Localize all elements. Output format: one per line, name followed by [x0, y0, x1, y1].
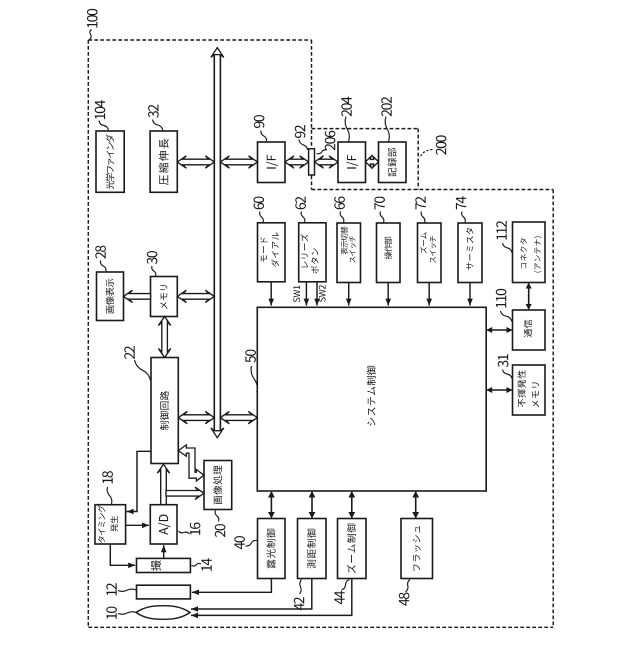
exposure control box 40 [258, 519, 286, 579]
arrow AD to image processing [166, 487, 204, 499]
arrow zoom switch to system control [428, 283, 430, 306]
arrow control-bus [178, 411, 214, 423]
wire SW1 arrow [305, 282, 307, 306]
release button box 62 [299, 223, 326, 282]
image processing box 20 [204, 461, 232, 510]
wire exposure control to shutter [192, 579, 271, 593]
label 202 [381, 97, 392, 116]
label 90 [254, 115, 265, 128]
arrow system-nvmemory [487, 389, 511, 391]
arrow timing to AD [126, 524, 149, 526]
arrow system-zoomctl [351, 492, 353, 518]
operation unit box 70 [377, 223, 401, 283]
lens 10 [136, 606, 190, 620]
bus arrow compress-bus [177, 156, 214, 168]
label 110 [496, 289, 507, 308]
label 104 [95, 100, 106, 119]
flash box 48 [401, 519, 433, 579]
arrow system-exposure [270, 492, 272, 518]
label 31 [498, 354, 509, 367]
double arrow IF204-recorder [366, 156, 379, 167]
arrow display switch to system control [348, 283, 350, 306]
label 50 [245, 350, 256, 363]
connector 206 arrow [315, 156, 339, 168]
label 48 [399, 593, 410, 606]
I/F box 90 [258, 142, 286, 183]
nonvolatile memory box 31 [513, 365, 546, 415]
arrow operation unit to system control [387, 283, 389, 306]
dashed boundary of recording unit 200 [312, 128, 419, 130]
memory box 30 [151, 277, 178, 317]
label 206 [325, 131, 336, 150]
control circuit box 22 [151, 358, 178, 464]
label 112 [496, 221, 506, 240]
arrow system-ranging [311, 492, 313, 518]
recording section box 202 [379, 142, 407, 183]
mode dial box 60 [258, 223, 286, 282]
label 62 [295, 197, 306, 210]
arrow connector-comm [528, 284, 530, 310]
arrow image sensor to AD [163, 545, 165, 558]
arrow system-comm [487, 329, 511, 331]
arrow mode dial to system control [270, 282, 272, 306]
elbow arrow control circuit - image processing [178, 445, 204, 481]
label 22 [124, 346, 134, 359]
I/F box 204 [338, 142, 366, 183]
dashed boundary of camera unit 100 [88, 39, 311, 41]
arrow system-flash [415, 492, 417, 518]
label 72 [415, 197, 425, 210]
label 70 [374, 197, 385, 210]
connector 92 [309, 149, 315, 175]
main image bus [213, 53, 215, 432]
label 10 [106, 607, 117, 619]
timing generator box 18 [95, 505, 126, 544]
wire SW2 arrow [316, 282, 318, 306]
label 66 [334, 197, 345, 210]
wire ranging control to lens [191, 579, 312, 610]
zoom control box 44 [338, 519, 367, 579]
wire timing to image sensor [110, 544, 135, 565]
label 204 [341, 97, 352, 117]
system control box 50 [257, 307, 486, 491]
label 200 [436, 135, 447, 154]
wire control circuit to timing generator [127, 451, 151, 511]
optical viewfinder box 104 [96, 131, 124, 192]
arrow bus-system control [220, 411, 257, 423]
label SW1 [293, 286, 300, 303]
label 18 [102, 471, 113, 483]
label 92 [295, 125, 306, 138]
label 32 [148, 105, 159, 118]
label SW2 [319, 285, 326, 302]
label 28 [95, 246, 106, 259]
image sensor box 14 [137, 558, 191, 572]
label 20 [215, 524, 226, 537]
image display box 28 [97, 272, 124, 321]
arrow thermistor to system control [469, 283, 471, 306]
display switch box 66 [337, 223, 361, 283]
label 30 [147, 251, 158, 264]
communication box 110 [513, 310, 546, 350]
connector/antenna box 112 [513, 222, 546, 283]
connector 92 arrow [285, 156, 309, 168]
label 100 [87, 9, 98, 28]
label 40 [234, 536, 245, 549]
ranging control box 42 [298, 519, 327, 579]
thermistor box 74 [458, 223, 482, 283]
zoom switch box 72 [418, 223, 442, 283]
label 16 [190, 523, 201, 535]
label 44 [334, 591, 344, 605]
arrow memory to display [124, 290, 151, 302]
wire zoom control to lens [191, 579, 352, 616]
compress/expand box 32 [150, 131, 177, 192]
label 12 [106, 583, 116, 595]
shutter box 12 [137, 585, 191, 599]
arrow memory-control circuit [158, 317, 170, 358]
label 42 [294, 597, 304, 610]
label 60 [254, 197, 265, 210]
arrow AD to control circuit [157, 464, 169, 505]
A/D box 16 [150, 505, 177, 544]
label 74 [456, 196, 466, 209]
label 14 [201, 558, 211, 571]
bus arrow bus-IF90 [220, 156, 257, 168]
arrow memory-bus [177, 290, 214, 302]
